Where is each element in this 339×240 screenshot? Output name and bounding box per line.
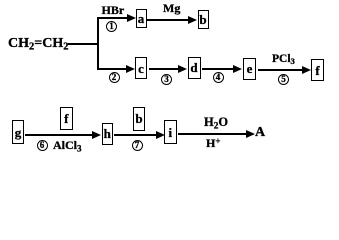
box f [311, 59, 324, 81]
label H2O [204, 116, 228, 132]
box f reagent above arrow [60, 107, 73, 130]
box g [12, 120, 24, 144]
arrow g to h [25, 134, 92, 136]
wire from CH2=CH2 to branch [68, 43, 98, 45]
arrow c to d [149, 68, 179, 70]
step number 6 [37, 140, 48, 151]
step number 7 [132, 140, 143, 151]
box i [164, 120, 177, 144]
label AlCl3 [53, 139, 82, 153]
box e [243, 58, 256, 80]
step number 2 [109, 72, 120, 83]
arrow h to i [114, 134, 156, 136]
box a [136, 9, 147, 28]
box c [135, 57, 147, 79]
label H+ [206, 137, 220, 149]
wire branch vertical [97, 17, 99, 70]
label HBr [102, 4, 125, 16]
arrow e to f [258, 69, 303, 71]
box h [102, 123, 113, 145]
product A [255, 126, 265, 140]
arrow a to b [147, 19, 188, 21]
label Mg [163, 2, 180, 14]
arrow to box c [97, 68, 127, 70]
step number 1 [106, 21, 117, 32]
arrow d to e [202, 68, 233, 70]
box b [198, 10, 209, 29]
step number 4 [213, 72, 224, 83]
step number 3 [161, 74, 172, 85]
step number 5 [278, 74, 289, 85]
reactant CH2=CH2 [8, 37, 68, 53]
arrow to box a [97, 17, 128, 19]
arrow i to A [178, 133, 246, 135]
label PCl3 [272, 54, 295, 66]
box b reagent above arrow [133, 107, 145, 131]
box d [188, 57, 201, 79]
